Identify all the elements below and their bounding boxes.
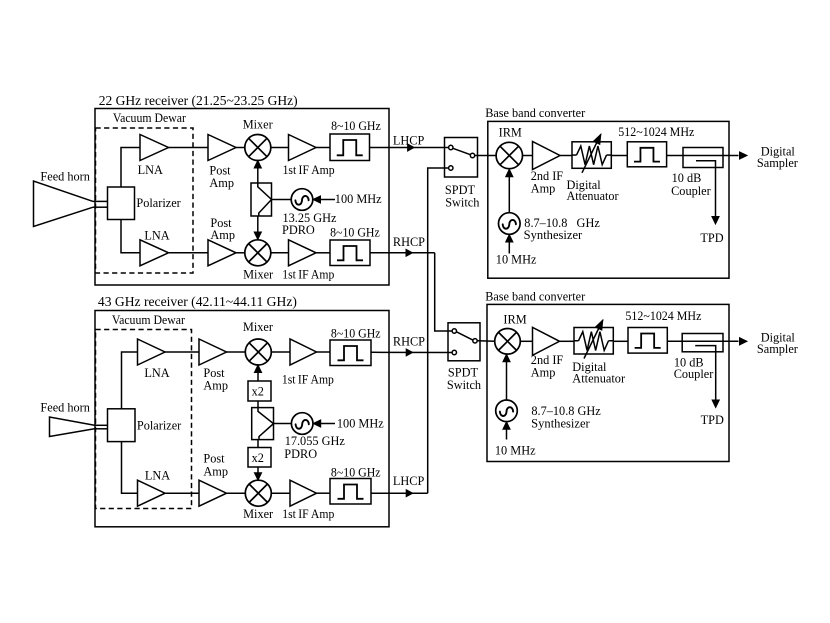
mixer upper (22 GHz) — [245, 135, 271, 161]
10 MHz wire 1 — [508, 239, 510, 254]
polarizer box (43 GHz) — [108, 409, 136, 442]
wire mixer upper to splitter (22 GHz) — [257, 165, 259, 184]
wire LNA to Post Amp upper (43 GHz) — [165, 351, 199, 353]
wire mixer to 1st IF Amp lower (22 GHz) — [271, 252, 289, 254]
Base band converter 2 box — [487, 304, 729, 461]
43 GHz receiver box — [95, 311, 389, 527]
x2 multiplier lower — [248, 448, 271, 468]
svg-text:8~10 GHz: 8~10 GHz — [331, 326, 381, 340]
2nd IF Amp 2 — [533, 327, 560, 355]
digital attenuator 2 — [574, 320, 613, 359]
svg-text:512~1024 MHz: 512~1024 MHz — [618, 125, 695, 139]
wire 1st IF Amp to filter lower (43 GHz) — [317, 492, 331, 494]
svg-text:Mixer: Mixer — [243, 320, 273, 334]
svg-text:RHCP: RHCP — [393, 334, 425, 348]
wire Post Amp to mixer lower (22 GHz) — [236, 252, 245, 254]
arrow into PDRO (43 GHz) — [313, 420, 321, 427]
band-pass filter upper (22 GHz) — [330, 134, 370, 161]
svg-text:PDRO: PDRO — [282, 223, 315, 237]
svg-text:Base band converter: Base band converter — [485, 106, 585, 120]
TPD tap wire 1 — [715, 168, 717, 220]
wire polarizer to lower LNA (22 GHz) — [121, 220, 140, 253]
svg-text:Amp: Amp — [531, 365, 556, 379]
svg-text:1st IF Amp: 1st IF Amp — [282, 507, 334, 521]
Post Amp upper (43 GHz) — [199, 339, 227, 365]
svg-text:Base band converter: Base band converter — [485, 290, 585, 304]
wire 2nd IF Amp to attenuator 1 — [560, 155, 572, 157]
1st IF Amp upper (22 GHz) — [289, 135, 317, 161]
wire 1st IF Amp to filter upper (43 GHz) — [317, 351, 331, 353]
mixer lower (22 GHz) — [245, 240, 271, 266]
svg-text:1st IF Amp: 1st IF Amp — [282, 267, 334, 281]
wire filter to coupler and output 2 — [667, 340, 738, 342]
svg-text:x2: x2 — [252, 385, 264, 399]
svg-text:17.055 GHz: 17.055 GHz — [285, 434, 346, 448]
svg-text:Polarizer: Polarizer — [137, 418, 181, 432]
mixer lower (43 GHz) — [245, 480, 271, 506]
wire Post Amp to mixer lower (43 GHz) — [227, 492, 246, 494]
wire splitter to mixer lower (22 GHz) — [257, 216, 259, 240]
SPDT switch 2 box — [448, 323, 480, 361]
svg-text:Amp: Amp — [531, 181, 556, 195]
2nd IF Amp 1 — [533, 142, 561, 170]
wire filter lower to riser (RHCP) — [370, 252, 435, 254]
wire Post Amp to mixer upper (22 GHz) — [236, 147, 245, 149]
TPD arrow 2 — [712, 400, 719, 408]
svg-text:Mixer: Mixer — [243, 267, 273, 281]
waveguide (43 GHz) — [95, 424, 109, 426]
arrow into mixer upper LO — [254, 161, 261, 169]
svg-text:43 GHz receiver (42.11~44.11 G: 43 GHz receiver (42.11~44.11 GHz) — [98, 294, 297, 310]
wire polarizer to lower LNA (43 GHz) — [122, 442, 138, 494]
svg-text:Attenuator: Attenuator — [572, 372, 625, 386]
synthesizer to IRM2 arrow — [503, 354, 510, 362]
wire mixer to 1st IF Amp upper (22 GHz) — [271, 147, 289, 149]
RHCP arrow (43 GHz) — [406, 349, 413, 356]
svg-text:Amp: Amp — [203, 464, 228, 478]
RHCP arrow (22 GHz) — [406, 249, 413, 256]
svg-text:8~10 GHz: 8~10 GHz — [331, 466, 381, 480]
svg-text:100 MHz: 100 MHz — [335, 192, 382, 206]
arrow into PDRO — [313, 196, 321, 203]
Digital Sampler arrow 2 — [740, 338, 748, 345]
svg-text:1st IF Amp: 1st IF Amp — [283, 163, 335, 177]
wire splitter to PDRO (43 GHz) — [274, 423, 292, 425]
svg-text:Attenuator: Attenuator — [567, 189, 619, 203]
band-pass filter upper (43 GHz) — [330, 340, 371, 366]
LNA upper (43 GHz) — [138, 339, 166, 365]
LHCP arrow (43 GHz) — [406, 490, 413, 497]
svg-text:LHCP: LHCP — [393, 474, 425, 488]
wire 43G LHCP riser to SPDT1 — [428, 168, 449, 493]
svg-text:Polarizer: Polarizer — [136, 196, 180, 210]
LO splitter (22 GHz) — [251, 183, 272, 216]
10 dB coupler 1 — [683, 148, 723, 168]
svg-text:10 MHz: 10 MHz — [495, 443, 536, 457]
13.25 GHz PDRO oscillator — [291, 189, 313, 211]
wire LNA to Post Amp lower (43 GHz) — [165, 492, 199, 494]
TPD arrow 1 — [712, 217, 719, 225]
wire x2 to splitter (43 GHz) — [257, 401, 259, 408]
10 MHz arrow 1 — [506, 235, 513, 243]
Digital Sampler arrow 1 — [740, 152, 748, 159]
wire splitter to x2 lower (43 GHz) — [257, 440, 259, 448]
svg-text:Vacuum Dewar: Vacuum Dewar — [112, 313, 185, 327]
svg-text:Amp: Amp — [209, 176, 234, 190]
svg-text:Amp: Amp — [210, 228, 235, 242]
10 dB coupler 2 — [682, 334, 723, 352]
LHCP arrow — [408, 144, 415, 151]
1st IF Amp lower (43 GHz) — [290, 480, 317, 506]
wire IRM1 to 2nd IF Amp — [523, 155, 533, 157]
svg-text:Switch: Switch — [445, 196, 479, 210]
wire mixer to 1st IF Amp lower (43 GHz) — [271, 492, 290, 494]
IRM mixer 2 — [495, 329, 521, 355]
riser 22G RHCP to SPDT2 — [435, 253, 452, 331]
svg-text:Synthesizer: Synthesizer — [524, 228, 583, 242]
feed horn (22 GHz) — [34, 181, 94, 227]
LNA lower (43 GHz) — [138, 480, 166, 506]
synthesizer to IRM1 wire — [508, 173, 510, 213]
8.7-10.8 GHz synthesizer 1 — [499, 213, 521, 235]
arrow into mixer lower LO — [254, 232, 261, 240]
wire polarizer to upper LNA (43 GHz) — [122, 352, 138, 409]
wire mixer to 1st IF Amp upper (43 GHz) — [271, 351, 290, 353]
wire LNA to Post Amp lower (22 GHz) — [169, 252, 209, 254]
wire polarizer to upper LNA (22 GHz) — [121, 148, 140, 188]
wire IRM2 to 2nd IF Amp — [520, 340, 532, 342]
10 MHz wire 2 — [506, 426, 508, 440]
TPD tap wire 2 — [715, 352, 717, 403]
svg-text:PDRO: PDRO — [284, 447, 317, 461]
svg-text:Mixer: Mixer — [243, 117, 273, 131]
wire 1st IF Amp to filter lower (22 GHz) — [316, 252, 330, 254]
svg-text:IRM: IRM — [499, 126, 522, 140]
Base band converter 1 box — [488, 121, 729, 278]
10 MHz arrow 2 — [503, 422, 510, 430]
svg-text:10 MHz: 10 MHz — [496, 253, 537, 267]
svg-text:Amp: Amp — [203, 379, 228, 393]
feed horn (43 GHz) — [50, 417, 95, 437]
svg-text:LNA: LNA — [145, 468, 170, 482]
band-pass filter lower (22 GHz) — [330, 240, 370, 266]
wire Post Amp to mixer upper (43 GHz) — [227, 351, 246, 353]
Post Amp lower (22 GHz) — [208, 240, 236, 266]
svg-text:Coupler: Coupler — [671, 184, 711, 198]
SPDT switch 1 box — [445, 138, 478, 178]
1st IF Amp lower (22 GHz) — [289, 240, 317, 266]
wire filter lower to riser (LHCP) — [371, 492, 428, 494]
synthesizer to IRM1 arrow — [506, 169, 513, 177]
svg-text:100 MHz: 100 MHz — [337, 417, 384, 431]
digital attenuator 1 — [572, 134, 611, 173]
wire x2 lower to mixer lower (43 GHz) — [257, 467, 259, 477]
svg-text:1st IF Amp: 1st IF Amp — [282, 372, 334, 386]
svg-text:22 GHz receiver (21.25~23.25 G: 22 GHz receiver (21.25~23.25 GHz) — [99, 93, 298, 109]
svg-text:8~10 GHz: 8~10 GHz — [331, 119, 381, 133]
8.7-10.8 GHz synthesizer 2 — [496, 400, 518, 422]
wire 2nd IF Amp to attenuator 2 — [560, 340, 575, 342]
svg-text:Feed horn: Feed horn — [40, 169, 90, 183]
LNA lower (22 GHz) — [140, 240, 169, 266]
svg-text:TPD: TPD — [700, 231, 723, 245]
waveguide (22 GHz) — [93, 200, 108, 202]
wire attenuator to filter 1 — [611, 155, 627, 157]
band-pass filter BBC1 — [627, 142, 666, 167]
svg-text:Switch: Switch — [447, 378, 481, 392]
Post Amp upper (22 GHz) — [208, 135, 236, 161]
LNA upper (22 GHz) — [140, 135, 169, 161]
wire mixer upper to x2 (43 GHz) — [257, 369, 259, 381]
svg-text:Feed horn: Feed horn — [40, 401, 90, 415]
22 GHz receiver box — [95, 109, 389, 286]
wire SPDT2 to IRM2 — [478, 340, 495, 343]
arrow into mixer lower LO (43 GHz) — [254, 473, 261, 481]
wire SPDT1 to IRM1 — [475, 155, 497, 157]
wire filter to coupler and output 1 — [667, 155, 739, 157]
svg-text:LNA: LNA — [138, 163, 163, 177]
wire filter to SPDT2 (RHCP) — [371, 351, 452, 353]
IRM mixer 1 — [496, 142, 522, 168]
wire 100 MHz to PDRO (43 GHz) — [313, 423, 335, 425]
svg-text:RHCP: RHCP — [393, 235, 425, 249]
svg-text:x2: x2 — [252, 451, 264, 465]
synthesizer to IRM2 wire — [506, 358, 508, 400]
svg-text:IRM: IRM — [503, 312, 526, 326]
wire 1st IF Amp to filter upper (22 GHz) — [316, 147, 330, 149]
LO splitter (43 GHz) — [252, 408, 274, 440]
svg-text:8~10 GHz: 8~10 GHz — [330, 226, 380, 240]
svg-text:Vacuum Dewar: Vacuum Dewar — [113, 111, 186, 125]
Vacuum Dewar dashed box (43 GHz) — [96, 330, 192, 509]
polarizer box (22 GHz) — [108, 187, 135, 220]
arrow into mixer upper LO (43 GHz) — [254, 365, 261, 373]
svg-text:LNA: LNA — [144, 228, 169, 242]
x2 multiplier upper — [248, 381, 271, 401]
svg-text:Synthesizer: Synthesizer — [531, 417, 590, 431]
mixer upper (43 GHz) — [245, 339, 271, 365]
svg-text:Sampler: Sampler — [757, 342, 798, 356]
wire splitter to PDRO (22 GHz) — [272, 199, 292, 201]
1st IF Amp upper (43 GHz) — [290, 339, 317, 365]
band-pass filter BBC2 — [628, 328, 667, 354]
wire LNA to Post Amp upper (22 GHz) — [169, 147, 209, 149]
wire filter to SPDT1 (LHCP) — [370, 147, 449, 149]
svg-text:Coupler: Coupler — [674, 367, 714, 381]
svg-text:TPD: TPD — [701, 413, 724, 427]
svg-text:LNA: LNA — [144, 366, 169, 380]
Vacuum Dewar dashed box (22 GHz) — [96, 128, 194, 273]
svg-text:512~1024 MHz: 512~1024 MHz — [625, 309, 702, 323]
svg-text:Mixer: Mixer — [243, 507, 273, 521]
Post Amp lower (43 GHz) — [199, 480, 227, 506]
wire attenuator to filter 2 — [613, 340, 628, 342]
wire 100 MHz to PDRO — [313, 199, 335, 201]
17.055 GHz PDRO oscillator — [291, 413, 313, 435]
svg-text:Sampler: Sampler — [757, 156, 798, 170]
band-pass filter lower (43 GHz) — [330, 479, 371, 505]
